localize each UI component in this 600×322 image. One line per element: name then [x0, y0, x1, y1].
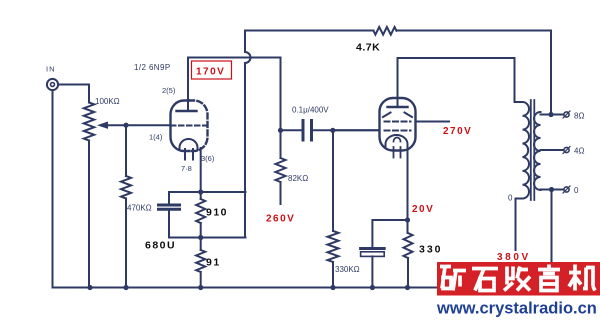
- svg-text:1(4): 1(4): [149, 133, 163, 142]
- svg-text:4Ω: 4Ω: [574, 147, 584, 156]
- svg-text:470KΩ: 470KΩ: [127, 204, 152, 213]
- svg-text:82KΩ: 82KΩ: [288, 174, 308, 183]
- svg-text:2(5): 2(5): [162, 86, 176, 95]
- svg-text:0: 0: [508, 194, 513, 203]
- svg-text:91: 91: [206, 257, 221, 269]
- svg-text:330KΩ: 330KΩ: [335, 265, 360, 274]
- svg-text:www.crystalradio.cn: www.crystalradio.cn: [436, 300, 597, 318]
- svg-text:3(6): 3(6): [201, 154, 215, 163]
- svg-text:100KΩ: 100KΩ: [95, 97, 120, 106]
- svg-text:380V: 380V: [497, 252, 531, 263]
- svg-text:1/2 6N9P: 1/2 6N9P: [134, 63, 171, 72]
- svg-text:0.1μ/400V: 0.1μ/400V: [292, 106, 329, 115]
- svg-text:680U: 680U: [145, 240, 176, 252]
- svg-text:260V: 260V: [266, 214, 295, 225]
- svg-text:0: 0: [574, 186, 579, 195]
- svg-text:7·8: 7·8: [181, 164, 192, 173]
- svg-text:4.7K: 4.7K: [356, 42, 380, 54]
- svg-text:170V: 170V: [196, 67, 225, 78]
- svg-text:270V: 270V: [443, 126, 472, 137]
- svg-text:20V: 20V: [412, 204, 434, 215]
- svg-text:IN: IN: [46, 65, 56, 74]
- svg-text:330: 330: [419, 244, 443, 256]
- svg-text:910: 910: [206, 207, 228, 219]
- svg-text:8Ω: 8Ω: [574, 112, 584, 121]
